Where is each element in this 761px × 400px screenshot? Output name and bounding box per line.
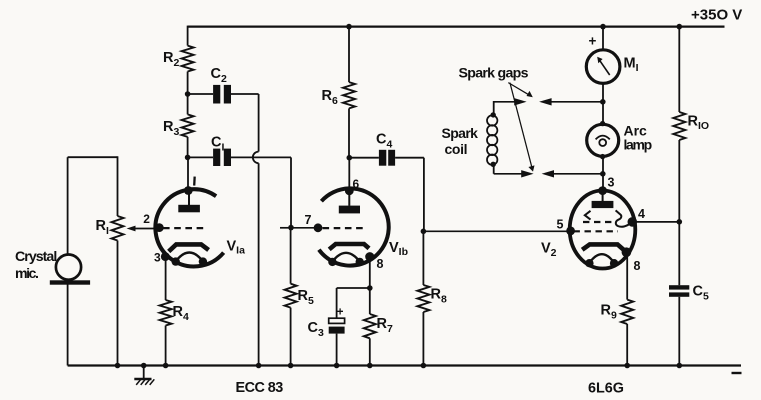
label V2 [541,241,557,259]
arrow R1 wiper head [127,226,136,232]
label C4 [376,132,392,151]
label ECC 83 [236,380,284,396]
node V1b heater left [328,258,336,266]
label C3 plus [337,307,344,319]
node rail R5 [288,363,294,369]
tube V2 envelope [570,191,636,269]
potentiometer R1 [112,216,124,241]
meter M1 [586,50,620,84]
wire R1 branch vertical [117,156,119,365]
node V1a pin 1 [184,186,193,195]
node V2 pin 8 (cathode) [622,247,632,257]
svg-text:Crystal: Crystal [15,249,56,265]
label Crystal mic. [15,249,56,282]
wire C4 right lead [395,158,424,232]
beam plate V2 right with tail [616,210,631,226]
label pin 1 [193,177,196,186]
node V1b heater right [356,258,364,266]
svg-text:mic.: mic. [15,266,38,282]
svg-text:+35O V: +35O V [691,6,742,23]
wire R5 top lead [290,228,292,284]
wire R2-R3 segment [187,72,189,115]
node V2 pin 3 [598,186,607,195]
node rail C3 [334,363,340,369]
wire V2 anode lead [602,191,604,201]
svg-text:ECC 83: ECC 83 [236,380,284,396]
label R9 [601,303,617,322]
label R5 [298,288,314,307]
node rail C5 [677,363,683,369]
node C3/R7 junction [367,285,373,291]
label 6L6G [588,381,624,397]
tube V1b envelope [319,188,389,265]
anode V1a plate [178,205,200,213]
label C2 [211,66,227,85]
arrow pointer to upper gap [508,83,533,98]
wire R8 bottom lead [422,312,424,366]
svg-text:Spark gaps: Spark gaps [459,66,529,82]
node V2 heater right [610,259,618,267]
svg-text:5: 5 [557,218,564,232]
resistor R5 [285,284,297,308]
wire C2 feedback vertical with hop [253,94,259,366]
wire top +350V rail [188,26,725,28]
resistor R8 [417,285,429,312]
grid V1a dashed [163,227,206,229]
svg-text:8: 8 [634,259,641,273]
resistor R2 [182,46,194,72]
node C4/R8/grid junction [421,229,427,235]
label R2 [163,50,179,69]
wire V1b cathode down [369,257,371,288]
svg-text:4: 4 [638,207,645,221]
node rail R9 [624,363,630,369]
node M1/spark gap junction [600,99,606,105]
ground symbol [134,366,154,385]
node M1 top rail junction [600,24,606,30]
arrow lower gap right [542,170,554,177]
cathode V1a [169,244,209,251]
resistor R3 [182,114,194,136]
grid V1b dashed [323,227,367,229]
svg-text:6: 6 [353,177,360,191]
wire mic branch vertical [67,157,69,365]
capacitor C5 [669,285,689,297]
label R1 [96,218,109,237]
wire V1b anode lead [348,191,350,206]
anode V2 plate [592,201,614,208]
wire C3 bottom lead [336,334,338,366]
node V1a pin 2 (grid) [155,223,164,232]
wire C1 left lead [188,156,214,158]
wire V1a cathode to R4 [165,257,167,300]
wire R10 top lead [678,27,680,112]
svg-text:3: 3 [608,176,615,190]
wire input top horizontal [68,156,118,158]
wire R7 top lead [369,288,371,314]
svg-text:Spark: Spark [442,125,479,141]
wire C3 top lead [336,288,338,318]
wire R3-anode segment [187,137,189,191]
svg-text:+: + [337,307,344,319]
label +350 V [691,6,742,23]
label R10 [688,114,710,133]
inductor spark coil [487,115,497,165]
label pin 3 [154,251,161,265]
capacitor C3 (electrolytic) [329,318,345,333]
label V1b [389,240,408,258]
wire C5 bottom lead [678,297,680,366]
resistor R10 [673,112,685,140]
node V1a heater left [172,257,180,265]
wire coil bottom corner [494,164,522,174]
screen grid V2 dashed [583,221,613,223]
node V2 heater left [585,259,593,267]
svg-text:7: 7 [305,213,312,227]
node R2/R3/C2 junction [185,91,191,97]
resistor R4 [160,300,172,326]
node C1/R5/grid junction [288,225,294,231]
wire C4 left lead [349,157,379,159]
label pin 2 [143,212,150,226]
label M1 [624,56,639,74]
label R7 [377,316,393,335]
node arc lamp top [600,121,605,126]
wire V1b anode lead top [348,158,350,191]
svg-text:2: 2 [143,212,150,226]
node V1a heater right [199,257,207,265]
anode V1b plate [339,206,360,214]
node rail R4 [163,363,169,369]
heater V1a [176,253,203,262]
node ground stub junction [141,363,147,369]
node R10/C5 junction [677,219,683,225]
label M1 plus [589,34,597,49]
wire junction to pin 7 [291,227,318,229]
capacitor C1 [213,149,231,166]
label V1a [227,239,246,257]
node coil bottom [491,162,496,167]
label C1 [211,134,224,153]
wire junction to V2 grid [423,230,570,232]
node arc lamp bottom [600,154,605,159]
crystal mic MIC1 [50,255,90,285]
wire upper gap left segment [494,101,515,103]
node rail R1 [115,363,121,369]
wire R6 top lead [348,27,350,83]
svg-text:3: 3 [154,251,161,265]
label pin 5 [557,218,564,232]
wire R8 top lead [422,231,424,285]
label pin 4 [638,207,645,221]
wire R7 bottom lead [369,338,371,365]
arrow lower gap left [521,170,533,177]
wire V1a anode lead [188,191,190,206]
wire C1 right lead [231,156,291,158]
node V1a pin 3 (cathode) [161,252,170,261]
svg-text:6L6G: 6L6G [588,381,624,397]
wire M1 top lead [602,27,604,50]
node rail R8 [421,363,427,369]
beam plate V2 left [585,211,591,220]
label pin 8 [377,257,384,271]
wire coil top corner [493,101,495,115]
wire C2 left lead [188,93,214,95]
label minus terminal [732,372,742,374]
wire R9 bottom lead [626,324,628,366]
label C5 [693,284,709,303]
resistor R7 [364,314,376,338]
control grid V2 dashed [574,230,619,232]
node lamp/spark gap junction [600,171,606,177]
svg-text:coil: coil [445,141,468,157]
wire R1 wiper arm [134,228,161,230]
label pin 6 [353,177,360,191]
wire C1 to grid vertical [290,157,292,227]
node R10 top rail junction [677,24,683,30]
label pin 7 [305,213,312,227]
node R6/C4/anode junction [347,155,353,161]
capacitor C2 [213,85,231,104]
resistor R6 [343,82,355,108]
cathode V2 [582,244,624,250]
node V1b pin 8 (cathode) [365,252,374,261]
svg-text:lamp: lamp [624,137,652,153]
wire R10 to C5 [678,140,680,285]
node V2 pin 4 (screen) [628,217,638,227]
wire bottom ground rail [68,364,741,366]
node rail R7 [367,363,373,369]
node V2 pin 5 (grid) [566,227,575,236]
label R6 [322,88,338,107]
node coil top [491,112,496,117]
wire pin 7 lead [280,227,291,229]
svg-text:+: + [589,34,597,49]
wire R4 bottom lead [165,326,167,366]
wire lower gap right segment [553,173,602,175]
wire lamp to V2 anode [602,156,604,190]
node R6 top rail junction [346,24,352,30]
label Spark coil [442,125,479,157]
wire C3 horizontal [337,287,370,289]
arrow upper gap right [539,98,552,105]
capacitor C4 [379,150,395,166]
node V1b pin 6 [345,186,354,195]
svg-text:8: 8 [377,257,384,271]
arrow pointer to lower gap [510,83,535,172]
arrow upper gap left [514,98,526,105]
node V1b pin 7 (grid) [314,223,323,232]
wire R5 bottom lead [290,308,292,366]
node R3/C1 junction [185,155,191,161]
label R4 [173,304,189,323]
label C3 [308,320,324,339]
cathode V1b [329,244,369,249]
wire V2 cathode down [626,252,628,299]
label R8 [431,287,447,306]
label R3 [163,119,179,138]
heater V2 [589,254,614,263]
wire V2 screen to R10 [632,221,679,223]
wire M1 bottom lead [602,83,604,124]
label Spark gaps [459,66,529,82]
resistor R9 [621,300,633,324]
wire R6 bottom lead [348,108,350,157]
wire upper gap right segment [551,101,603,103]
label pin 8 V2 [634,259,641,273]
arc lamp [587,124,619,156]
heater V1b [332,253,359,262]
wire C2 right lead [231,93,259,95]
wire R2 top lead [187,26,189,46]
label pin 3 [608,176,615,190]
label Arc lamp [624,123,652,153]
node rail C2 [256,363,262,369]
tube V1a envelope [155,189,223,266]
